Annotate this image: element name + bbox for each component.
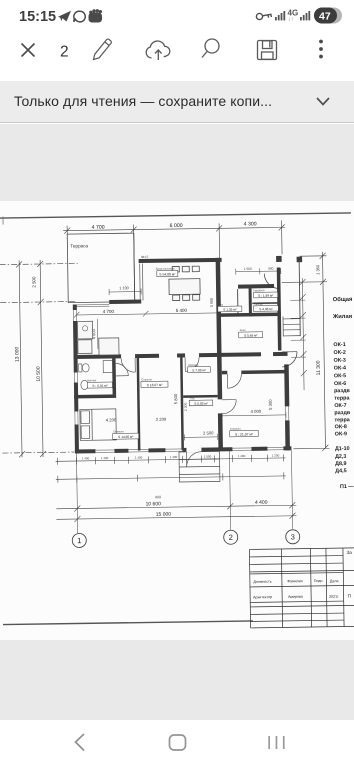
wall: house left xyxy=(73,304,79,453)
wall: hall thin divider xyxy=(237,289,239,316)
svg-text:1: 1 xyxy=(77,536,81,545)
nav back chevron xyxy=(76,734,85,751)
room label 21,07 xyxy=(230,426,259,437)
svg-text:2 500: 2 500 xyxy=(203,430,214,435)
dining table xyxy=(169,266,201,300)
fist app icon xyxy=(89,9,103,22)
svg-text:Дала: Дала xyxy=(330,579,339,583)
svg-text:4 400: 4 400 xyxy=(255,500,268,506)
scanned page with floor plan xyxy=(0,201,354,640)
svg-text:1 100: 1 100 xyxy=(119,286,129,290)
svg-text:Спальня: Спальня xyxy=(141,377,152,381)
cloud upload icon xyxy=(146,41,170,60)
svg-text:4 200: 4 200 xyxy=(106,417,117,422)
room label 5,49 xyxy=(239,328,263,338)
svg-text:ОК-8: ОК-8 xyxy=(335,424,347,430)
kitchen island xyxy=(99,338,119,355)
terrace outline xyxy=(67,233,135,303)
window: left wall kitchen xyxy=(72,310,78,321)
svg-text:Схд: Схд xyxy=(190,396,195,400)
svg-text:1 400: 1 400 xyxy=(170,455,178,459)
left dimension line 13 000 xyxy=(16,260,46,457)
bottom dimension line 15 000 xyxy=(56,513,296,523)
wall: bedroom3 top xyxy=(222,370,286,374)
svg-text:За: За xyxy=(346,550,352,555)
room label 1,99 xyxy=(253,288,278,298)
corridor east door gap and arc xyxy=(217,399,223,413)
svg-text:S : 6,91 м²: S : 6,91 м² xyxy=(92,384,107,388)
bottom dimension line row1 xyxy=(56,454,286,464)
wall: house top xyxy=(139,258,222,263)
svg-text:4 700: 4 700 xyxy=(92,225,105,231)
svg-text:900: 900 xyxy=(268,267,274,271)
svg-text:ОК-7: ОК-7 xyxy=(334,403,346,409)
svg-text:2 500: 2 500 xyxy=(31,276,36,288)
svg-text:15 000: 15 000 xyxy=(156,512,172,518)
svg-text:S 54,00 м²: S 54,00 м² xyxy=(159,272,176,276)
toolbar xyxy=(0,32,354,81)
svg-text:S 7,88 м²: S 7,88 м² xyxy=(192,368,205,372)
svg-text:↓↑: ↓↑ xyxy=(288,17,294,23)
signal bars 2 xyxy=(300,11,310,20)
entrance door east xyxy=(282,352,297,367)
svg-text:П: П xyxy=(348,593,351,598)
wall: bathroom bottom xyxy=(74,394,116,398)
svg-text:ОК-5: ОК-5 xyxy=(334,373,346,379)
window: kitchen north xyxy=(74,304,109,306)
porch east edge xyxy=(299,260,300,336)
save floppy icon xyxy=(258,41,277,60)
svg-text:Жилая пл: Жилая пл xyxy=(332,314,354,320)
svg-text:2: 2 xyxy=(60,44,69,61)
table row texts xyxy=(253,594,339,600)
svg-text:13 000: 13 000 xyxy=(14,346,20,362)
svg-text:5 800: 5 800 xyxy=(173,393,178,404)
spine door gaps xyxy=(121,354,135,359)
gray band below page xyxy=(0,640,354,720)
svg-text:1 400: 1 400 xyxy=(101,456,109,460)
svg-text:1 400: 1 400 xyxy=(82,456,90,460)
kitchen counter lower xyxy=(78,340,92,354)
room label 6,83 xyxy=(189,396,213,406)
right dimension line outer 11 300 xyxy=(282,252,330,452)
svg-text:ОК-1: ОК-1 xyxy=(333,342,345,348)
svg-text:S 18,07 м²: S 18,07 м² xyxy=(147,383,164,387)
back door gap and arc xyxy=(186,447,201,452)
wall: house bottom xyxy=(75,446,292,453)
svg-text:раздв: раздв xyxy=(334,410,351,416)
wall: house right lower xyxy=(284,364,290,450)
table header texts xyxy=(253,579,338,585)
svg-text:15:15: 15:15 xyxy=(19,9,56,25)
porch dimension line xyxy=(236,268,281,275)
read only banner xyxy=(0,81,354,123)
svg-text:П1 —: П1 — xyxy=(340,484,354,490)
bottom dimension line 10 600 / 4 400 xyxy=(56,502,296,512)
title block table xyxy=(249,548,354,628)
chat bubble notification icon xyxy=(74,11,85,22)
svg-text:5 000: 5 000 xyxy=(210,298,214,307)
bathroom toilet xyxy=(79,364,90,373)
bathroom sink xyxy=(81,380,88,389)
porch pillar east xyxy=(297,257,303,263)
svg-text:1 400: 1 400 xyxy=(238,454,246,458)
svg-text:S 4,48 м²: S 4,48 м² xyxy=(259,307,272,311)
svg-text:S : 21,07 м²: S : 21,07 м² xyxy=(235,432,254,436)
svg-text:4 700: 4 700 xyxy=(103,309,115,314)
svg-text:терра: терра xyxy=(334,417,350,423)
bathroom door arc xyxy=(116,363,129,376)
svg-text:Схд: Схд xyxy=(218,302,223,306)
svg-text:2021г.: 2021г. xyxy=(329,595,339,599)
nav home squircle xyxy=(170,735,186,750)
svg-text:ОК-4: ОК-4 xyxy=(334,365,346,371)
svg-text:4 000: 4 000 xyxy=(91,328,96,339)
back porch steps xyxy=(179,451,220,482)
scan frame bottom edge xyxy=(3,621,253,625)
search icon xyxy=(202,39,219,58)
room label 14,85 xyxy=(113,429,139,439)
wall: storage top xyxy=(183,395,218,398)
bathroom washer xyxy=(103,360,115,372)
battery 47 xyxy=(314,8,342,24)
svg-text:5 400: 5 400 xyxy=(176,308,188,313)
svg-text:1 500: 1 500 xyxy=(244,267,252,271)
right dimension line inner xyxy=(299,278,307,390)
svg-text:1 350: 1 350 xyxy=(315,264,320,275)
wall: bedroom divider west xyxy=(137,358,141,451)
svg-text:384,5: 384,5 xyxy=(141,255,149,259)
wall: small rooms bottom xyxy=(218,312,281,316)
svg-text:S 14,85 м²: S 14,85 м² xyxy=(118,435,133,439)
room label 6,91 xyxy=(87,378,112,388)
svg-text:4 000: 4 000 xyxy=(251,409,262,414)
svg-text:Архитектор: Архитектор xyxy=(253,595,272,599)
kitchen counter upper xyxy=(78,321,93,339)
gray band above page xyxy=(0,124,354,201)
svg-text:ОК-9: ОК-9 xyxy=(335,431,347,437)
wall: bathroom right xyxy=(112,358,116,394)
right column door list xyxy=(335,446,350,474)
svg-text:Спальня: Спальня xyxy=(230,427,241,431)
telegram notification icon xyxy=(58,11,71,22)
svg-text:Амирова: Амирова xyxy=(288,595,303,599)
window wall: living room west xyxy=(140,263,143,300)
right column window list xyxy=(333,342,351,438)
svg-text:Общая пл: Общая пл xyxy=(333,296,354,303)
svg-text:ОК-3: ОК-3 xyxy=(334,358,346,364)
top dimension line xyxy=(63,220,286,262)
svg-text:ОК-2: ОК-2 xyxy=(333,350,345,356)
svg-text:3: 3 xyxy=(291,532,295,541)
scan frame top edge xyxy=(0,213,351,218)
spine door arcs xyxy=(121,357,199,372)
kitchen dimension line 4 700 / 5 400 xyxy=(74,310,223,318)
svg-text:раздв: раздв xyxy=(334,388,351,394)
svg-text:Должность: Должность xyxy=(253,580,271,584)
axis guide verticals to circles xyxy=(76,450,292,533)
svg-text:600: 600 xyxy=(155,495,161,499)
svg-text:S : 1,99 м²: S : 1,99 м² xyxy=(258,294,273,298)
porch door arc xyxy=(264,273,279,288)
svg-text:6 000: 6 000 xyxy=(170,223,183,229)
svg-text:Подп.: Подп. xyxy=(314,579,324,583)
bottom dimension tiny texts xyxy=(82,453,280,460)
chevron down xyxy=(317,98,329,105)
svg-text:Холл: Холл xyxy=(240,328,247,332)
svg-text:Спальня: Спальня xyxy=(113,429,124,433)
window: right wall xyxy=(284,406,290,420)
svg-text:2 300: 2 300 xyxy=(184,402,188,411)
kitchen vertical dim 4 000 xyxy=(96,319,98,349)
signal bars 1 xyxy=(275,11,285,20)
nav recents bars xyxy=(268,736,284,749)
bottom dimension line row2 xyxy=(56,472,286,482)
axis circle 1 xyxy=(72,533,86,547)
wall: kitchen terrace segment xyxy=(109,300,141,304)
axis dash-dot line C xyxy=(2,452,74,453)
svg-text:Д4,5: Д4,5 xyxy=(335,468,346,474)
status bar xyxy=(0,0,354,32)
svg-text:Гардероб: Гардероб xyxy=(253,288,265,292)
wall: 1,99/4,48 divider xyxy=(252,302,278,304)
svg-text:Коридор: Коридор xyxy=(188,363,199,367)
svg-text:Ванная: Ванная xyxy=(87,378,97,382)
svg-text:10 600: 10 600 xyxy=(146,501,162,507)
wall: house right upper xyxy=(277,267,282,350)
window: left wall bedroom xyxy=(74,411,80,424)
room label 54,00 living room xyxy=(156,266,178,276)
room label 1,35 xyxy=(218,302,242,312)
porch steps east xyxy=(283,316,300,336)
svg-text:S 6,83 м²: S 6,83 м² xyxy=(194,402,207,406)
svg-text:4 300: 4 300 xyxy=(244,221,257,227)
bedroom3 door gap and arc xyxy=(227,370,241,375)
svg-text:2: 2 xyxy=(229,533,233,542)
svg-text:Фамилия: Фамилия xyxy=(287,579,302,583)
svg-text:10 500: 10 500 xyxy=(36,366,42,382)
svg-text:1 000: 1 000 xyxy=(204,454,212,458)
svg-text:Д2,3: Д2,3 xyxy=(335,454,346,460)
porch pillar west xyxy=(276,256,282,262)
svg-text:5 300: 5 300 xyxy=(268,399,273,410)
vpn key icon xyxy=(256,13,271,19)
wall: porch front xyxy=(238,284,274,289)
wall: small rooms divider vertical xyxy=(249,288,252,316)
pencil edit icon xyxy=(94,39,112,59)
android navigation bar xyxy=(0,720,354,767)
svg-text:3 200: 3 200 xyxy=(156,417,167,422)
wall: corridor west xyxy=(180,357,184,450)
room label 7,88 xyxy=(188,363,211,373)
window: left wall bathroom xyxy=(73,372,79,382)
svg-text:11 300: 11 300 xyxy=(316,360,322,375)
svg-text:терра: терра xyxy=(334,395,350,401)
room label 4,48 xyxy=(253,301,278,311)
svg-text:Д1-10: Д1-10 xyxy=(335,446,350,452)
close X button xyxy=(22,44,35,57)
svg-text:1 200: 1 200 xyxy=(272,453,280,457)
windows: bottom wall xyxy=(95,446,283,454)
svg-text:ОК-6: ОК-6 xyxy=(334,381,346,387)
axis dash-dot line B xyxy=(0,301,76,302)
svg-text:1 400: 1 400 xyxy=(135,456,143,460)
svg-text:Д8,9: Д8,9 xyxy=(335,461,346,467)
axis circle 3 xyxy=(286,530,300,544)
room label 18,07 xyxy=(141,377,168,387)
wall: living room right vertical xyxy=(216,258,223,450)
bed xyxy=(80,409,116,441)
scan edge ticks top-left xyxy=(0,216,3,227)
axis circle 2 xyxy=(224,530,238,544)
wall: main spine xyxy=(74,352,288,359)
svg-text:S 5,49 м²: S 5,49 м² xyxy=(244,333,257,337)
overflow menu dots xyxy=(319,40,323,59)
svg-text:Тамбур: Тамбур xyxy=(254,302,263,306)
axis dash-dot line A xyxy=(0,263,78,264)
svg-text:Терраса: Терраса xyxy=(70,243,88,248)
svg-text:47: 47 xyxy=(319,11,331,23)
svg-text:S 1,35 м²: S 1,35 м² xyxy=(223,308,236,312)
svg-text:Зала-гостиная: Зала-гостиная xyxy=(156,267,175,271)
